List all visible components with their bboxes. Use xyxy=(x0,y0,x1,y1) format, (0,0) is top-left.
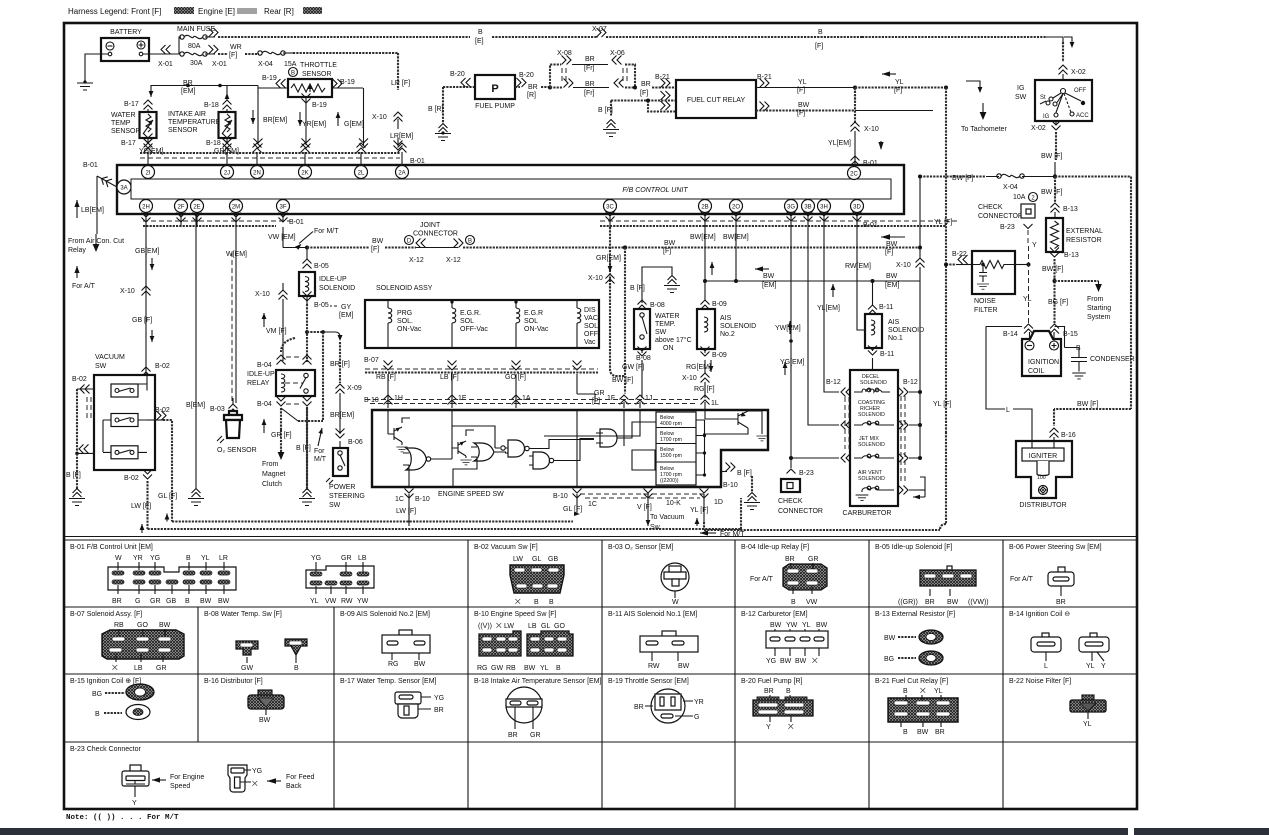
svg-text:YW: YW xyxy=(786,622,798,629)
svg-text:BR: BR xyxy=(585,56,595,63)
svg-text:OFF: OFF xyxy=(1074,88,1086,94)
LB[EM] arrow label xyxy=(74,200,104,218)
B-04 labels/connector xyxy=(750,556,827,606)
svg-text:GR: GR xyxy=(530,732,541,739)
fuel pump left wire xyxy=(443,86,475,88)
svg-text:1A: 1A xyxy=(522,395,531,402)
svg-text:RG: RG xyxy=(388,661,399,668)
B-09 connector xyxy=(382,630,430,668)
svg-text:[F]: [F] xyxy=(797,87,805,94)
svg-text:B: B xyxy=(903,688,908,695)
svg-text:YL: YL xyxy=(1083,721,1092,728)
pin 3C xyxy=(604,200,617,213)
svg-text:X-12: X-12 xyxy=(446,257,461,264)
svg-text:LB[EM]: LB[EM] xyxy=(81,207,104,214)
svg-text:B-23 Check Connector: B-23 Check Connector xyxy=(70,746,141,753)
svg-text:DISTRIBUTOR: DISTRIBUTOR xyxy=(1019,502,1066,509)
svg-text:SOLENOID: SOLENOID xyxy=(858,476,885,482)
svg-text:B-17 Water Temp. Sensor [EM]: B-17 Water Temp. Sensor [EM] xyxy=(340,678,437,685)
svg-text:CONNECTOR: CONNECTOR xyxy=(778,508,823,515)
svg-text:GL: GL xyxy=(532,556,541,563)
svg-text:GR [F]: GR [F] xyxy=(271,432,292,439)
svg-text:YL: YL xyxy=(201,555,210,562)
air vent solenoid xyxy=(856,470,894,501)
svg-text:B: B xyxy=(549,599,554,606)
pin 2M xyxy=(230,200,243,213)
CHECK CONNECTOR (top) xyxy=(978,204,1037,249)
svg-text:SOLENOID: SOLENOID xyxy=(888,327,924,334)
svg-text:1700 rpm: 1700 rpm xyxy=(660,437,682,443)
svg-text:B-18 Intake Air Temperature Se: B-18 Intake Air Temperature Sensor [EM] xyxy=(474,678,602,685)
svg-text:RG: RG xyxy=(477,665,488,672)
svg-text:YG: YG xyxy=(766,658,776,665)
WR [F] label xyxy=(229,44,242,59)
coasting richer solenoid xyxy=(854,400,894,425)
svg-text:B-10 Engine Speed Sw [F]: B-10 Engine Speed Sw [F] xyxy=(474,611,557,618)
svg-text:B: B xyxy=(903,729,908,736)
svg-text:BW: BW xyxy=(917,729,929,736)
svg-text:B-16 Distributor [F]: B-16 Distributor [F] xyxy=(204,678,263,685)
svg-text:2A: 2A xyxy=(398,171,405,177)
svg-text:Rear [R]: Rear [R] xyxy=(264,7,294,16)
pin 2E xyxy=(191,200,204,213)
svg-text:DIS: DIS xyxy=(584,307,596,314)
svg-text:System: System xyxy=(1087,314,1111,321)
pin 3D xyxy=(851,200,864,213)
B-22 connector xyxy=(1070,695,1106,728)
svg-text:YL: YL xyxy=(934,688,943,695)
svg-text:RG [F]: RG [F] xyxy=(694,386,715,393)
RW[EM] wire from 3D xyxy=(845,227,871,330)
svg-text:LW [F]: LW [F] xyxy=(131,503,151,510)
svg-text:LR[EM]: LR[EM] xyxy=(390,133,413,140)
svg-text:BW: BW xyxy=(414,661,426,668)
B-22 noise filter xyxy=(944,251,1031,314)
YL[EM] drop from YL wire xyxy=(854,88,856,102)
svg-text:B-07: B-07 xyxy=(364,357,379,364)
svg-text:GB: GB xyxy=(166,598,176,605)
carburetor right connections to BW vertical xyxy=(909,387,925,499)
svg-text:W: W xyxy=(672,599,679,606)
G[EM] vertical wire to bus xyxy=(336,88,364,145)
svg-text:[EM]: [EM] xyxy=(762,282,776,289)
svg-text:X-10: X-10 xyxy=(120,288,135,295)
svg-text:2I: 2I xyxy=(145,171,150,177)
svg-text:GB: GB xyxy=(548,556,558,563)
battery minus terminal xyxy=(106,42,114,50)
svg-text:B-23: B-23 xyxy=(799,470,814,477)
svg-text:2N: 2N xyxy=(253,171,261,177)
svg-text:B-05: B-05 xyxy=(314,302,329,309)
svg-text:Speed: Speed xyxy=(170,783,190,790)
svg-text:B-01 F/B Control Unit [EM]: B-01 F/B Control Unit [EM] xyxy=(70,544,153,551)
svg-text:B: B xyxy=(478,29,483,36)
svg-text:B-13 External Resistor [F]: B-13 External Resistor [F] xyxy=(875,611,955,618)
svg-text:LB: LB xyxy=(134,665,143,672)
svg-text:[EM]: [EM] xyxy=(339,312,353,319)
B [F] hatched from B-04 right pin down xyxy=(306,408,308,489)
Y / YL dashed wire to coil xyxy=(1003,246,1033,338)
svg-text:X-02: X-02 xyxy=(1071,69,1086,76)
svg-text:B-02 Vacuum Sw [F]: B-02 Vacuum Sw [F] xyxy=(474,544,538,551)
B-05 connector xyxy=(898,566,989,606)
svg-text:ENGINE SPEED SW: ENGINE SPEED SW xyxy=(438,491,504,498)
svg-text:3A: 3A xyxy=(120,186,127,192)
B-01 connector left xyxy=(108,555,236,605)
X-02 connector bottom xyxy=(1031,121,1061,161)
svg-text:No.2: No.2 xyxy=(720,331,735,338)
svg-text:O₂ SENSOR: O₂ SENSOR xyxy=(217,447,257,454)
svg-text:B-08: B-08 xyxy=(650,302,665,309)
To Tachometer xyxy=(961,81,1007,133)
svg-text:LR [F]: LR [F] xyxy=(391,80,410,87)
B-02 connector xyxy=(510,556,564,606)
svg-text:⨉: ⨉ xyxy=(252,780,258,788)
B [F] (M/T) wire xyxy=(296,407,315,506)
svg-text:((V)): ((V)) xyxy=(478,623,492,630)
pin 2C xyxy=(848,167,861,180)
check connector 2 xyxy=(778,458,823,515)
svg-text:B-01: B-01 xyxy=(863,160,878,167)
svg-text:B-09: B-09 xyxy=(712,301,727,308)
connector X-01 right (both rows) xyxy=(205,28,227,68)
svg-text:BW: BW xyxy=(259,717,271,724)
svg-text:BG [F]: BG [F] xyxy=(1048,299,1068,306)
svg-text:THROTTLE: THROTTLE xyxy=(300,62,337,69)
svg-text:2F: 2F xyxy=(177,205,184,211)
svg-text:CONDENSER: CONDENSER xyxy=(1090,356,1135,363)
svg-text:CHECK: CHECK xyxy=(978,204,1003,211)
IGNITER / DISTRIBUTOR xyxy=(1016,440,1072,509)
B-15 connectors xyxy=(92,684,154,720)
X-10 VW connector xyxy=(255,283,288,325)
svg-text:D: D xyxy=(407,239,412,245)
svg-text:To Tachometer: To Tachometer xyxy=(961,126,1007,133)
pin 2L xyxy=(355,166,368,179)
svg-text:B [R]: B [R] xyxy=(428,106,444,113)
THROTTLE SENSOR label xyxy=(289,62,338,78)
svg-text:LW: LW xyxy=(504,623,514,630)
svg-text:B-20: B-20 xyxy=(519,72,534,79)
GR[EM] wire from 3C xyxy=(588,227,625,376)
BW [EM] horizontal bus (y=281) xyxy=(703,262,920,289)
svg-text:LR: LR xyxy=(219,555,228,562)
svg-text:GO: GO xyxy=(137,622,148,629)
svg-text:Y: Y xyxy=(1101,663,1106,670)
svg-text:L: L xyxy=(1044,663,1048,670)
svg-text:BW: BW xyxy=(372,238,384,245)
LR [F] vertical wire xyxy=(372,80,413,150)
svg-text:BW [F]: BW [F] xyxy=(1041,153,1062,160)
B-01 hatched bus below unit left part (y=224) xyxy=(143,213,304,227)
svg-text:B-01: B-01 xyxy=(83,162,98,169)
svg-text:X-04: X-04 xyxy=(1003,184,1018,191)
svg-text:YG: YG xyxy=(434,695,444,702)
svg-text:B-22: B-22 xyxy=(952,251,967,258)
svg-text:B-10: B-10 xyxy=(553,493,568,500)
pin 3H xyxy=(818,200,831,213)
svg-text:[F]: [F] xyxy=(640,90,648,97)
battery ground wire xyxy=(85,54,108,81)
pin 2B xyxy=(699,200,712,213)
svg-text:YL: YL xyxy=(895,79,904,86)
svg-text:B: B xyxy=(786,688,791,695)
sol 2 xyxy=(450,300,488,348)
svg-text:B: B xyxy=(818,29,823,36)
svg-text:X-07: X-07 xyxy=(592,26,607,33)
svg-text:FUEL PUMP: FUEL PUMP xyxy=(475,103,515,110)
svg-text:BR: BR xyxy=(112,598,122,605)
svg-text:YR: YR xyxy=(694,699,704,706)
svg-text:CONNECTOR: CONNECTOR xyxy=(413,231,458,238)
svg-text:SOLENOID: SOLENOID xyxy=(858,442,885,448)
svg-text:For A/T: For A/T xyxy=(72,283,96,290)
svg-text:BW: BW xyxy=(780,658,792,665)
main fuse 80A xyxy=(173,35,207,54)
svg-text:BR: BR xyxy=(1056,599,1066,606)
sol 1 xyxy=(388,300,422,348)
svg-text:[F]: [F] xyxy=(663,248,671,255)
pin 2F xyxy=(175,200,188,213)
B-10 dashed bus xyxy=(364,395,719,410)
svg-text:B-09: B-09 xyxy=(712,352,727,359)
svg-text:For Engine: For Engine xyxy=(170,774,204,781)
svg-text:ON: ON xyxy=(663,345,674,352)
svg-text:B-16: B-16 xyxy=(1061,432,1076,439)
svg-text:RG[EM]: RG[EM] xyxy=(686,364,711,371)
GB[EM] wire from 2H xyxy=(120,227,170,377)
B-05 branch xyxy=(299,248,355,310)
svg-text:G[EM]: G[EM] xyxy=(344,121,364,128)
BW [F] drop to 1F xyxy=(612,246,633,394)
svg-text:GR: GR xyxy=(808,556,819,563)
svg-text:YG: YG xyxy=(150,555,160,562)
B-02 bottom connector xyxy=(124,470,152,530)
gate 2: NOR tall xyxy=(403,448,443,487)
svg-text:RELAY: RELAY xyxy=(247,380,270,387)
B-11 connector xyxy=(640,631,698,670)
svg-text:above 17°C: above 17°C xyxy=(655,336,692,344)
svg-text:BW [F]: BW [F] xyxy=(1042,266,1063,273)
svg-text:GR: GR xyxy=(156,665,167,672)
svg-text:WR: WR xyxy=(230,44,242,51)
svg-text:BR: BR xyxy=(528,84,538,91)
B-01 chevron into 3A xyxy=(83,162,117,234)
svg-text:BW[EM]: BW[EM] xyxy=(690,234,716,241)
svg-text:GR: GR xyxy=(150,598,161,605)
left arrow above BW wire right xyxy=(881,234,905,240)
B-01 hatched bus above unit (y=152) xyxy=(140,153,425,165)
row3 column dividers xyxy=(198,674,1003,742)
1C left bottom connector xyxy=(395,489,430,527)
gate 7: AND right xyxy=(596,429,627,447)
svg-text:OFF-: OFF- xyxy=(584,331,601,338)
B-16 connector xyxy=(248,690,284,724)
X-02 connector top xyxy=(1059,65,1086,80)
svg-text:B-20 Fuel Pump [R]: B-20 Fuel Pump [R] xyxy=(741,678,803,685)
B-23 connector 1 xyxy=(122,765,204,807)
svg-text:⨉: ⨉ xyxy=(812,657,818,665)
B-23 connector 2 xyxy=(228,765,315,792)
svg-text:3D: 3D xyxy=(853,205,861,211)
wire to X-08 junction xyxy=(515,86,550,88)
svg-text:INTAKE AIR: INTAKE AIR xyxy=(168,111,206,118)
IG SW label xyxy=(1015,85,1027,101)
svg-text:BR: BR xyxy=(434,707,444,714)
wire drops to B-10 bus xyxy=(376,374,605,405)
svg-text:⨉: ⨉ xyxy=(920,687,926,695)
svg-text:IGNITION: IGNITION xyxy=(1028,359,1059,366)
row4 column dividers xyxy=(334,742,1003,809)
svg-text:TEMP: TEMP xyxy=(111,120,131,127)
gate 6: NAND 2 xyxy=(529,452,564,469)
svg-text:B [F]: B [F] xyxy=(66,472,81,479)
svg-text:SOL: SOL xyxy=(460,318,474,325)
svg-text:B-11 AIS Solenoid No.1 [EM]: B-11 AIS Solenoid No.1 [EM] xyxy=(608,611,697,618)
pin 2O xyxy=(730,200,743,213)
VM [F] label / wire to B-04 xyxy=(262,304,343,421)
bottom dark bar xyxy=(0,828,1128,835)
bottom pin row xyxy=(140,200,864,213)
2C pin drop from above xyxy=(828,88,884,168)
diagonal to For M/T wire xyxy=(281,408,327,463)
svg-text:Clutch: Clutch xyxy=(262,481,282,488)
svg-text:B-11: B-11 xyxy=(879,304,893,311)
svg-text:B-17: B-17 xyxy=(121,140,136,147)
svg-text:B-19 Throttle Sensor [EM]: B-19 Throttle Sensor [EM] xyxy=(608,678,689,685)
BR [F] X-09 wire xyxy=(330,342,363,448)
svg-text:F/B CONTROL UNIT: F/B CONTROL UNIT xyxy=(622,187,688,194)
svg-text:[Fr]: [Fr] xyxy=(584,90,595,97)
svg-text:X-01: X-01 xyxy=(212,61,227,68)
top B wire into right area xyxy=(862,37,1074,62)
B-18 connector xyxy=(506,687,542,739)
svg-text:E.G.R.: E.G.R. xyxy=(460,310,481,317)
row1 column dividers xyxy=(468,540,1003,607)
svg-text:B-13: B-13 xyxy=(1063,206,1078,213)
svg-text:X-12: X-12 xyxy=(409,257,424,264)
svg-text:B-10: B-10 xyxy=(723,482,738,489)
svg-text:B-21 Fuel Cut Relay [F]: B-21 Fuel Cut Relay [F] xyxy=(875,678,948,685)
svg-text:B: B xyxy=(468,239,472,245)
svg-text:2E: 2E xyxy=(193,205,200,211)
svg-text:1500 rpm: 1500 rpm xyxy=(660,453,682,459)
svg-text:SOL: SOL xyxy=(584,323,598,330)
svg-text:YL: YL xyxy=(1023,296,1032,303)
svg-text:B: B xyxy=(556,665,561,672)
row dividers xyxy=(64,606,1137,608)
svg-text:BW [F]: BW [F] xyxy=(1041,189,1062,196)
svg-text:CHECK: CHECK xyxy=(778,498,803,505)
svg-text:RB: RB xyxy=(114,622,124,629)
svg-text:GB[EM]: GB[EM] xyxy=(135,248,160,255)
svg-text:BW [F]: BW [F] xyxy=(1077,401,1098,408)
svg-text:1J: 1J xyxy=(645,395,652,402)
svg-text:B[EM]: B[EM] xyxy=(186,402,205,409)
svg-text:B: B xyxy=(291,71,295,77)
svg-text:[EM]: [EM] xyxy=(181,88,195,95)
svg-text:BR: BR xyxy=(764,688,774,695)
svg-text:10-K: 10-K xyxy=(666,500,681,507)
svg-text:V [F]: V [F] xyxy=(637,504,652,511)
pin 2A xyxy=(396,166,409,179)
svg-text:YL[EM]: YL[EM] xyxy=(828,140,851,147)
svg-text:AIS: AIS xyxy=(888,319,900,326)
svg-text:WATER: WATER xyxy=(655,313,680,320)
carburetor box xyxy=(843,370,898,517)
svg-text:SOLENOID: SOLENOID xyxy=(720,323,756,330)
YW[EM] wire from 3B xyxy=(775,227,808,420)
BG [F] wire xyxy=(1048,278,1111,338)
svg-text:BG: BG xyxy=(92,691,102,698)
B-08 connectors xyxy=(236,639,307,672)
B [R] ground wire xyxy=(428,87,451,141)
svg-text:((GR)): ((GR)) xyxy=(898,599,918,606)
solenoid assy box xyxy=(365,300,599,348)
svg-text:1H: 1H xyxy=(394,395,403,402)
svg-text:YL [F]: YL [F] xyxy=(934,219,952,226)
B-10 right bottom connector xyxy=(553,489,597,517)
sol 4 xyxy=(577,300,601,348)
svg-text:LB [F]: LB [F] xyxy=(440,374,459,381)
svg-text:⨉: ⨉ xyxy=(788,723,794,731)
svg-text:SW: SW xyxy=(655,329,667,336)
FUEL CUT RELAY box xyxy=(676,80,756,118)
fuel pump box xyxy=(475,75,515,110)
YL [F] vertical right xyxy=(933,88,952,531)
svg-text:YL: YL xyxy=(798,79,807,86)
svg-text:SOL: SOL xyxy=(524,318,538,325)
F/B control unit outer box xyxy=(117,165,904,214)
svg-text:X-01: X-01 xyxy=(158,61,173,68)
svg-text:ACC: ACC xyxy=(1076,113,1089,119)
svg-text:BW: BW xyxy=(664,240,676,247)
svg-text:From Air Con. Cut: From Air Con. Cut xyxy=(68,238,124,245)
B-02 middle right connector xyxy=(147,407,172,522)
svg-text:GW [F]: GW [F] xyxy=(622,364,644,371)
B [F] B-10 right side xyxy=(721,463,760,510)
BW [F] label right end xyxy=(885,241,898,256)
svg-text:TEMP.: TEMP. xyxy=(655,321,676,328)
B-20 connector xyxy=(753,688,813,731)
svg-text:RB: RB xyxy=(506,665,516,672)
B-14 connectors xyxy=(1031,633,1109,670)
svg-text:B-08: B-08 xyxy=(636,355,651,362)
svg-text:[F]: [F] xyxy=(885,249,893,256)
harness legend title xyxy=(68,7,322,16)
svg-text:YR[EM]: YR[EM] xyxy=(302,121,326,128)
svg-text:BW: BW xyxy=(947,599,959,606)
svg-text:IG: IG xyxy=(1043,114,1050,120)
YL[EM] wire from 3H xyxy=(817,227,840,387)
svg-text:GL: GL xyxy=(541,623,550,630)
svg-text:RESISTOR: RESISTOR xyxy=(1066,237,1102,244)
svg-text:BW: BW xyxy=(763,273,775,280)
gate 3: transistor Q2 xyxy=(452,410,474,465)
svg-text:W: W xyxy=(115,555,122,562)
row2 column dividers xyxy=(198,607,1003,674)
svg-text:SENSOR: SENSOR xyxy=(111,128,141,135)
svg-text:POWER: POWER xyxy=(329,484,355,491)
svg-text:1L: 1L xyxy=(711,400,719,407)
svg-text:⨉: ⨉ xyxy=(515,598,521,606)
svg-text:BR: BR xyxy=(925,599,935,606)
engine speed sw box xyxy=(372,410,768,487)
svg-text:3G: 3G xyxy=(787,205,795,211)
svg-text:⨉: ⨉ xyxy=(496,622,502,630)
svg-text:4000 rpm: 4000 rpm xyxy=(660,421,682,427)
svg-text:YL: YL xyxy=(1086,663,1095,670)
